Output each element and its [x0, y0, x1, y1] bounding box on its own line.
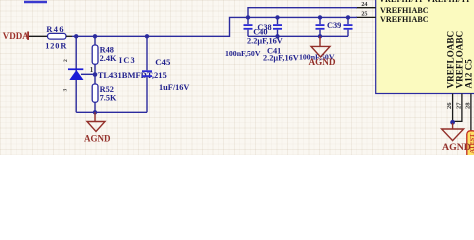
svg-text:2.2μF,16V: 2.2μF,16V: [247, 37, 283, 46]
bottom-left ground wire: [76, 111, 147, 113]
capacitor C38 lead bottom: [277, 30, 279, 37]
svg-text:IC3: IC3: [119, 56, 136, 65]
IC U? yellow body: [376, 0, 474, 94]
resistor R48 body: [92, 45, 98, 64]
svg-text:VREFHIABC: VREFHIABC: [380, 6, 429, 15]
junction C41 top: [318, 15, 322, 19]
junction C41 bottom / AGND: [318, 34, 322, 38]
svg-text:2.4K: 2.4K: [100, 54, 117, 63]
capacitor C45 plates: [142, 70, 152, 72]
svg-text:R46: R46: [46, 25, 65, 34]
svg-text:VREFHI/TP VREFHI/TP VR: VREFHI/TP VREFHI/TP VR: [379, 0, 474, 4]
svg-text:C40: C40: [253, 27, 267, 36]
resistor R46 body: [48, 33, 67, 39]
svg-text:AGND: AGND: [442, 142, 471, 153]
wire to pin 24: [248, 8, 357, 18]
capacitor C39 plates: [344, 24, 353, 26]
resistor R48 column wire: [94, 36, 96, 112]
svg-text:VDDA: VDDA: [3, 31, 29, 41]
svg-text:120R: 120R: [45, 42, 67, 51]
junction C38 top: [275, 15, 279, 19]
junction C40 top: [246, 15, 250, 19]
junction TL431 ref / R48 / R52: [93, 72, 98, 77]
ground AGND left: [87, 112, 105, 131]
junction TL431 top: [74, 34, 78, 38]
ground AGND middle: [311, 36, 330, 57]
svg-text:AGND: AGND: [309, 57, 336, 67]
capacitor C41 plates: [316, 24, 325, 26]
capacitor C45 column wire: [146, 36, 148, 70]
capacitor C41 lead bottom: [319, 30, 321, 37]
TL431 ref lead: [81, 73, 95, 75]
regulator IC3 TL431 cathode bar: [68, 68, 83, 70]
pin 27 line: [453, 94, 462, 122]
svg-text:2.2μF,16V: 2.2μF,16V: [263, 53, 299, 62]
pin 24 line: [356, 7, 376, 9]
wire VDDA to R46: [29, 35, 48, 37]
svg-text:1uF/16V: 1uF/16V: [159, 83, 189, 92]
wire stub top-left: [24, 1, 47, 4]
svg-text:TL431BMFDT,215: TL431BMFDT,215: [98, 70, 167, 80]
junction R48 top: [93, 34, 97, 38]
svg-text:3: 3: [63, 89, 69, 92]
resistor R52 body: [92, 84, 98, 102]
junction C45 top: [145, 34, 149, 38]
capacitor C39 lead bottom: [347, 30, 349, 37]
pin 28 line: [470, 94, 472, 132]
svg-text:C39: C39: [327, 21, 341, 30]
svg-text:A12 C5: A12 C5: [464, 59, 474, 89]
capacitor C38 lead top: [277, 17, 279, 24]
junction C39 top: [346, 15, 350, 19]
main wire VREF net: [72, 17, 357, 36]
regulator IC3 TL431 triangle: [69, 70, 83, 80]
pin 25 line: [356, 16, 376, 18]
junction R52 bottom: [93, 110, 97, 114]
svg-text:AGND: AGND: [84, 133, 111, 143]
svg-text:7.5K: 7.5K: [100, 93, 117, 102]
capacitor C38 plates: [273, 24, 282, 26]
svg-text:24: 24: [361, 1, 367, 8]
pin line R46 right: [66, 35, 72, 37]
svg-text:VREFHIABC: VREFHIABC: [380, 15, 429, 24]
capacitor C40 lead bottom: [247, 30, 249, 37]
capacitor C39 lead top: [347, 17, 349, 24]
port/pill bottom right: [467, 131, 474, 158]
junction C38 bottom: [275, 34, 279, 38]
svg-text:2: 2: [63, 59, 69, 62]
bottom capacitor ground wire: [248, 35, 348, 37]
svg-text:25: 25: [361, 10, 367, 17]
power port VDDA pin tick: [27, 32, 29, 40]
capacitor C40 plates: [244, 24, 253, 26]
capacitor C40 lead top: [247, 17, 249, 24]
svg-text:1: 1: [90, 66, 94, 74]
pin 26 line: [452, 94, 454, 124]
svg-text:C45: C45: [155, 57, 171, 67]
wire TL431 cathode column: [75, 36, 77, 112]
svg-text:100nF,50V: 100nF,50V: [225, 49, 261, 58]
junction pins 26/27: [450, 120, 455, 125]
capacitor C41 lead top: [319, 17, 321, 24]
ground AGND right: [442, 123, 464, 141]
